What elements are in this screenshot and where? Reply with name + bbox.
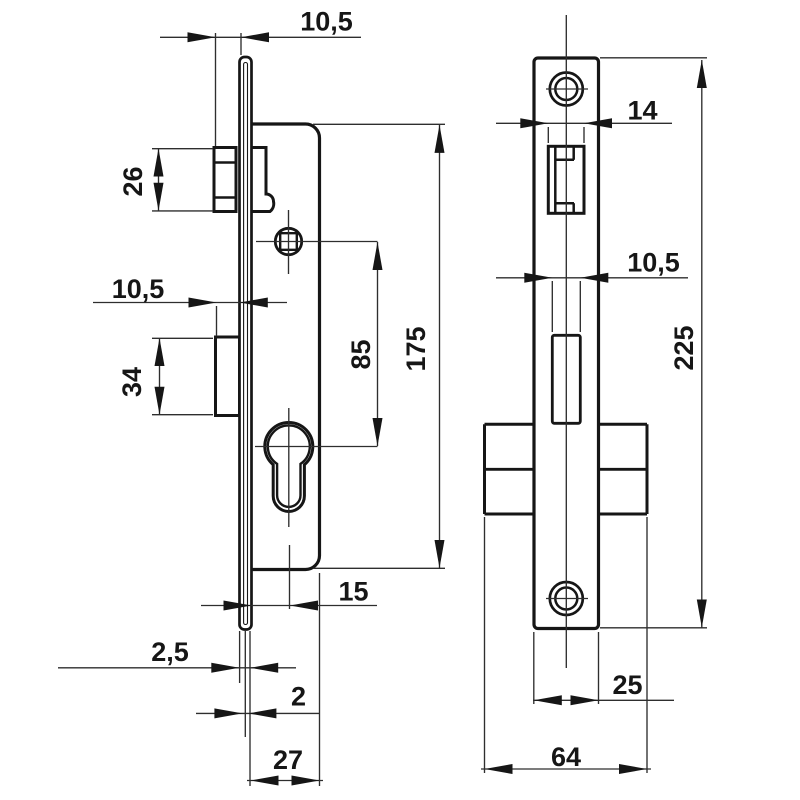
svg-text:175: 175 (401, 326, 431, 371)
svg-text:225: 225 (669, 325, 699, 370)
svg-text:27: 27 (273, 745, 303, 775)
svg-text:2: 2 (291, 682, 306, 712)
svg-text:10,5: 10,5 (627, 248, 680, 278)
svg-text:15: 15 (338, 577, 368, 607)
svg-text:14: 14 (627, 96, 657, 126)
svg-text:10,5: 10,5 (112, 274, 165, 304)
svg-text:34: 34 (117, 367, 147, 397)
svg-text:85: 85 (346, 339, 376, 369)
svg-text:2,5: 2,5 (151, 637, 189, 667)
svg-text:64: 64 (551, 742, 581, 772)
svg-text:26: 26 (118, 166, 148, 196)
svg-text:10,5: 10,5 (300, 7, 353, 37)
svg-text:25: 25 (612, 670, 642, 700)
